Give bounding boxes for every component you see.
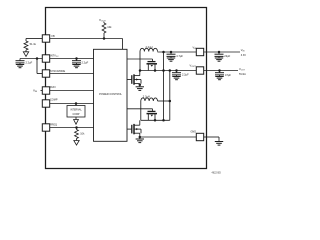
wire FREQ net xyxy=(50,127,94,129)
node internal cap1 junction xyxy=(170,51,173,54)
svg-text:2.2µF: 2.2µF xyxy=(182,73,189,77)
pin VIN right xyxy=(196,48,203,55)
wire L2 output xyxy=(158,100,170,102)
svg-text:47µF: 47µF xyxy=(225,73,231,77)
svg-text:2.2µH: 2.2µH xyxy=(143,95,150,99)
node FREQ junction xyxy=(75,126,78,129)
wire SW2 vertical xyxy=(140,101,142,120)
transistor Q2 bottom FET ch1 xyxy=(127,79,132,81)
node V1 top junction xyxy=(162,51,165,54)
wire vertical bus V2 xyxy=(169,71,171,121)
svg-text:3.3V: 3.3V xyxy=(241,54,246,57)
wire FB net xyxy=(50,38,123,40)
svg-text:SYNC/MODE: SYNC/MODE xyxy=(50,70,65,73)
wire INTVCC external xyxy=(20,58,42,60)
node Q4 source junction on gnd bus xyxy=(139,136,142,139)
pin VOUT right xyxy=(196,67,203,74)
wire VOUT external xyxy=(204,70,238,72)
wire rail3 ch2 xyxy=(141,119,170,121)
node FB junction xyxy=(103,37,106,40)
transistor Q1 top FET ch1 xyxy=(127,58,153,60)
ground hatched external xyxy=(218,140,220,142)
node Q2 source junction xyxy=(139,84,142,87)
wire SYNC/MODE net xyxy=(50,73,94,75)
pin GND xyxy=(196,133,203,140)
svg-text:4622 BD: 4622 BD xyxy=(212,172,222,175)
svg-text:22µF: 22µF xyxy=(224,54,230,58)
wire SW1 vertical xyxy=(139,52,141,71)
node INTVCC cap junction xyxy=(75,57,78,60)
svg-text:2.2µF: 2.2µF xyxy=(82,61,89,65)
capacitor 2.2uF external INTVCC xyxy=(19,59,21,61)
ground hatched Q4 source xyxy=(139,137,141,139)
wire RUN net xyxy=(50,90,94,92)
ground signal arrow below 51.1k xyxy=(23,52,28,57)
wire VOUT1 rail xyxy=(158,51,197,53)
svg-text:2.2µH: 2.2µH xyxy=(146,45,153,49)
pin FB xyxy=(42,35,49,42)
pin INTVCC xyxy=(42,55,49,62)
pin FREQ xyxy=(42,124,49,131)
svg-text:GND: GND xyxy=(190,131,196,134)
node VOUT ext cap junction xyxy=(218,69,221,72)
resistor 10k pull-up xyxy=(103,33,105,39)
capacitor 4.7uF internal ch1 xyxy=(170,52,172,54)
capacitor 4.7uF internal rail2 xyxy=(176,71,178,73)
wire vertical bus V1 xyxy=(163,52,165,120)
node rail3 V1 junction xyxy=(162,119,165,122)
inductor L1 2.2uH xyxy=(140,48,158,51)
wire GND bus xyxy=(140,136,196,138)
internal comp block xyxy=(67,106,85,118)
node SW1 rail joint xyxy=(139,69,142,72)
pin COMP xyxy=(42,100,49,107)
svg-text:10k: 10k xyxy=(107,25,112,29)
transistor Q4 bottom FET ch2 xyxy=(127,128,132,130)
ground signal arrow below FREQ resistor xyxy=(74,141,79,146)
power control block U1 xyxy=(94,49,128,141)
svg-text:INTERNAL: INTERNAL xyxy=(70,108,82,111)
svg-text:FREQ: FREQ xyxy=(50,123,57,126)
wire SYNC tie vertical xyxy=(36,59,38,74)
arrow from internal comp down xyxy=(75,117,77,120)
wire COMP to internal comp block xyxy=(75,104,77,106)
node rail3 fet junction xyxy=(154,119,157,122)
capacitor 2.2uF internal INTVCC xyxy=(76,59,78,61)
node COMP junction xyxy=(75,102,78,105)
inductor L2 2.2uH xyxy=(141,98,158,101)
wire GND external xyxy=(204,136,219,138)
pin SYNC/MODE xyxy=(42,70,49,77)
node INTVCC-SYNC tie xyxy=(36,57,39,60)
wire FB external xyxy=(26,38,42,40)
node rail2 cap junction xyxy=(175,69,178,72)
svg-text:4.7µF: 4.7µF xyxy=(176,54,183,58)
svg-text:FB: FB xyxy=(52,35,56,38)
svg-text:RUN: RUN xyxy=(50,86,56,89)
svg-text:2.2µF: 2.2µF xyxy=(26,61,33,65)
node L2 out junction xyxy=(169,100,172,103)
resistor 51.1k xyxy=(24,41,28,50)
svg-text:COMP: COMP xyxy=(73,114,80,116)
node VIN ext cap junction xyxy=(218,51,221,54)
node rail2 V2 junction xyxy=(169,69,172,72)
module outline LTM4622 xyxy=(46,8,207,169)
capacitor 22uF external xyxy=(218,52,220,54)
transistor Q3 top FET ch2 xyxy=(127,108,153,110)
wire VIN external lead xyxy=(41,90,43,92)
wire second rail y70 xyxy=(140,70,196,72)
wire COMP net xyxy=(50,103,94,105)
node rail2 fet junction xyxy=(154,69,157,72)
capacitor 47uF external xyxy=(219,71,221,73)
pin RUN xyxy=(42,87,49,94)
svg-text:COMP: COMP xyxy=(50,99,58,102)
ground hatched Q2 source xyxy=(139,85,141,87)
svg-text:51.1k: 51.1k xyxy=(30,42,37,46)
resistor internal 10k FREQ xyxy=(76,128,78,130)
svg-text:5V/2A: 5V/2A xyxy=(239,73,246,76)
svg-text:POWER CONTROL: POWER CONTROL xyxy=(99,92,122,96)
node rail2 V1 junction xyxy=(162,69,165,72)
wire VIN external xyxy=(204,51,240,53)
wire INTVCC net internal xyxy=(50,58,94,60)
